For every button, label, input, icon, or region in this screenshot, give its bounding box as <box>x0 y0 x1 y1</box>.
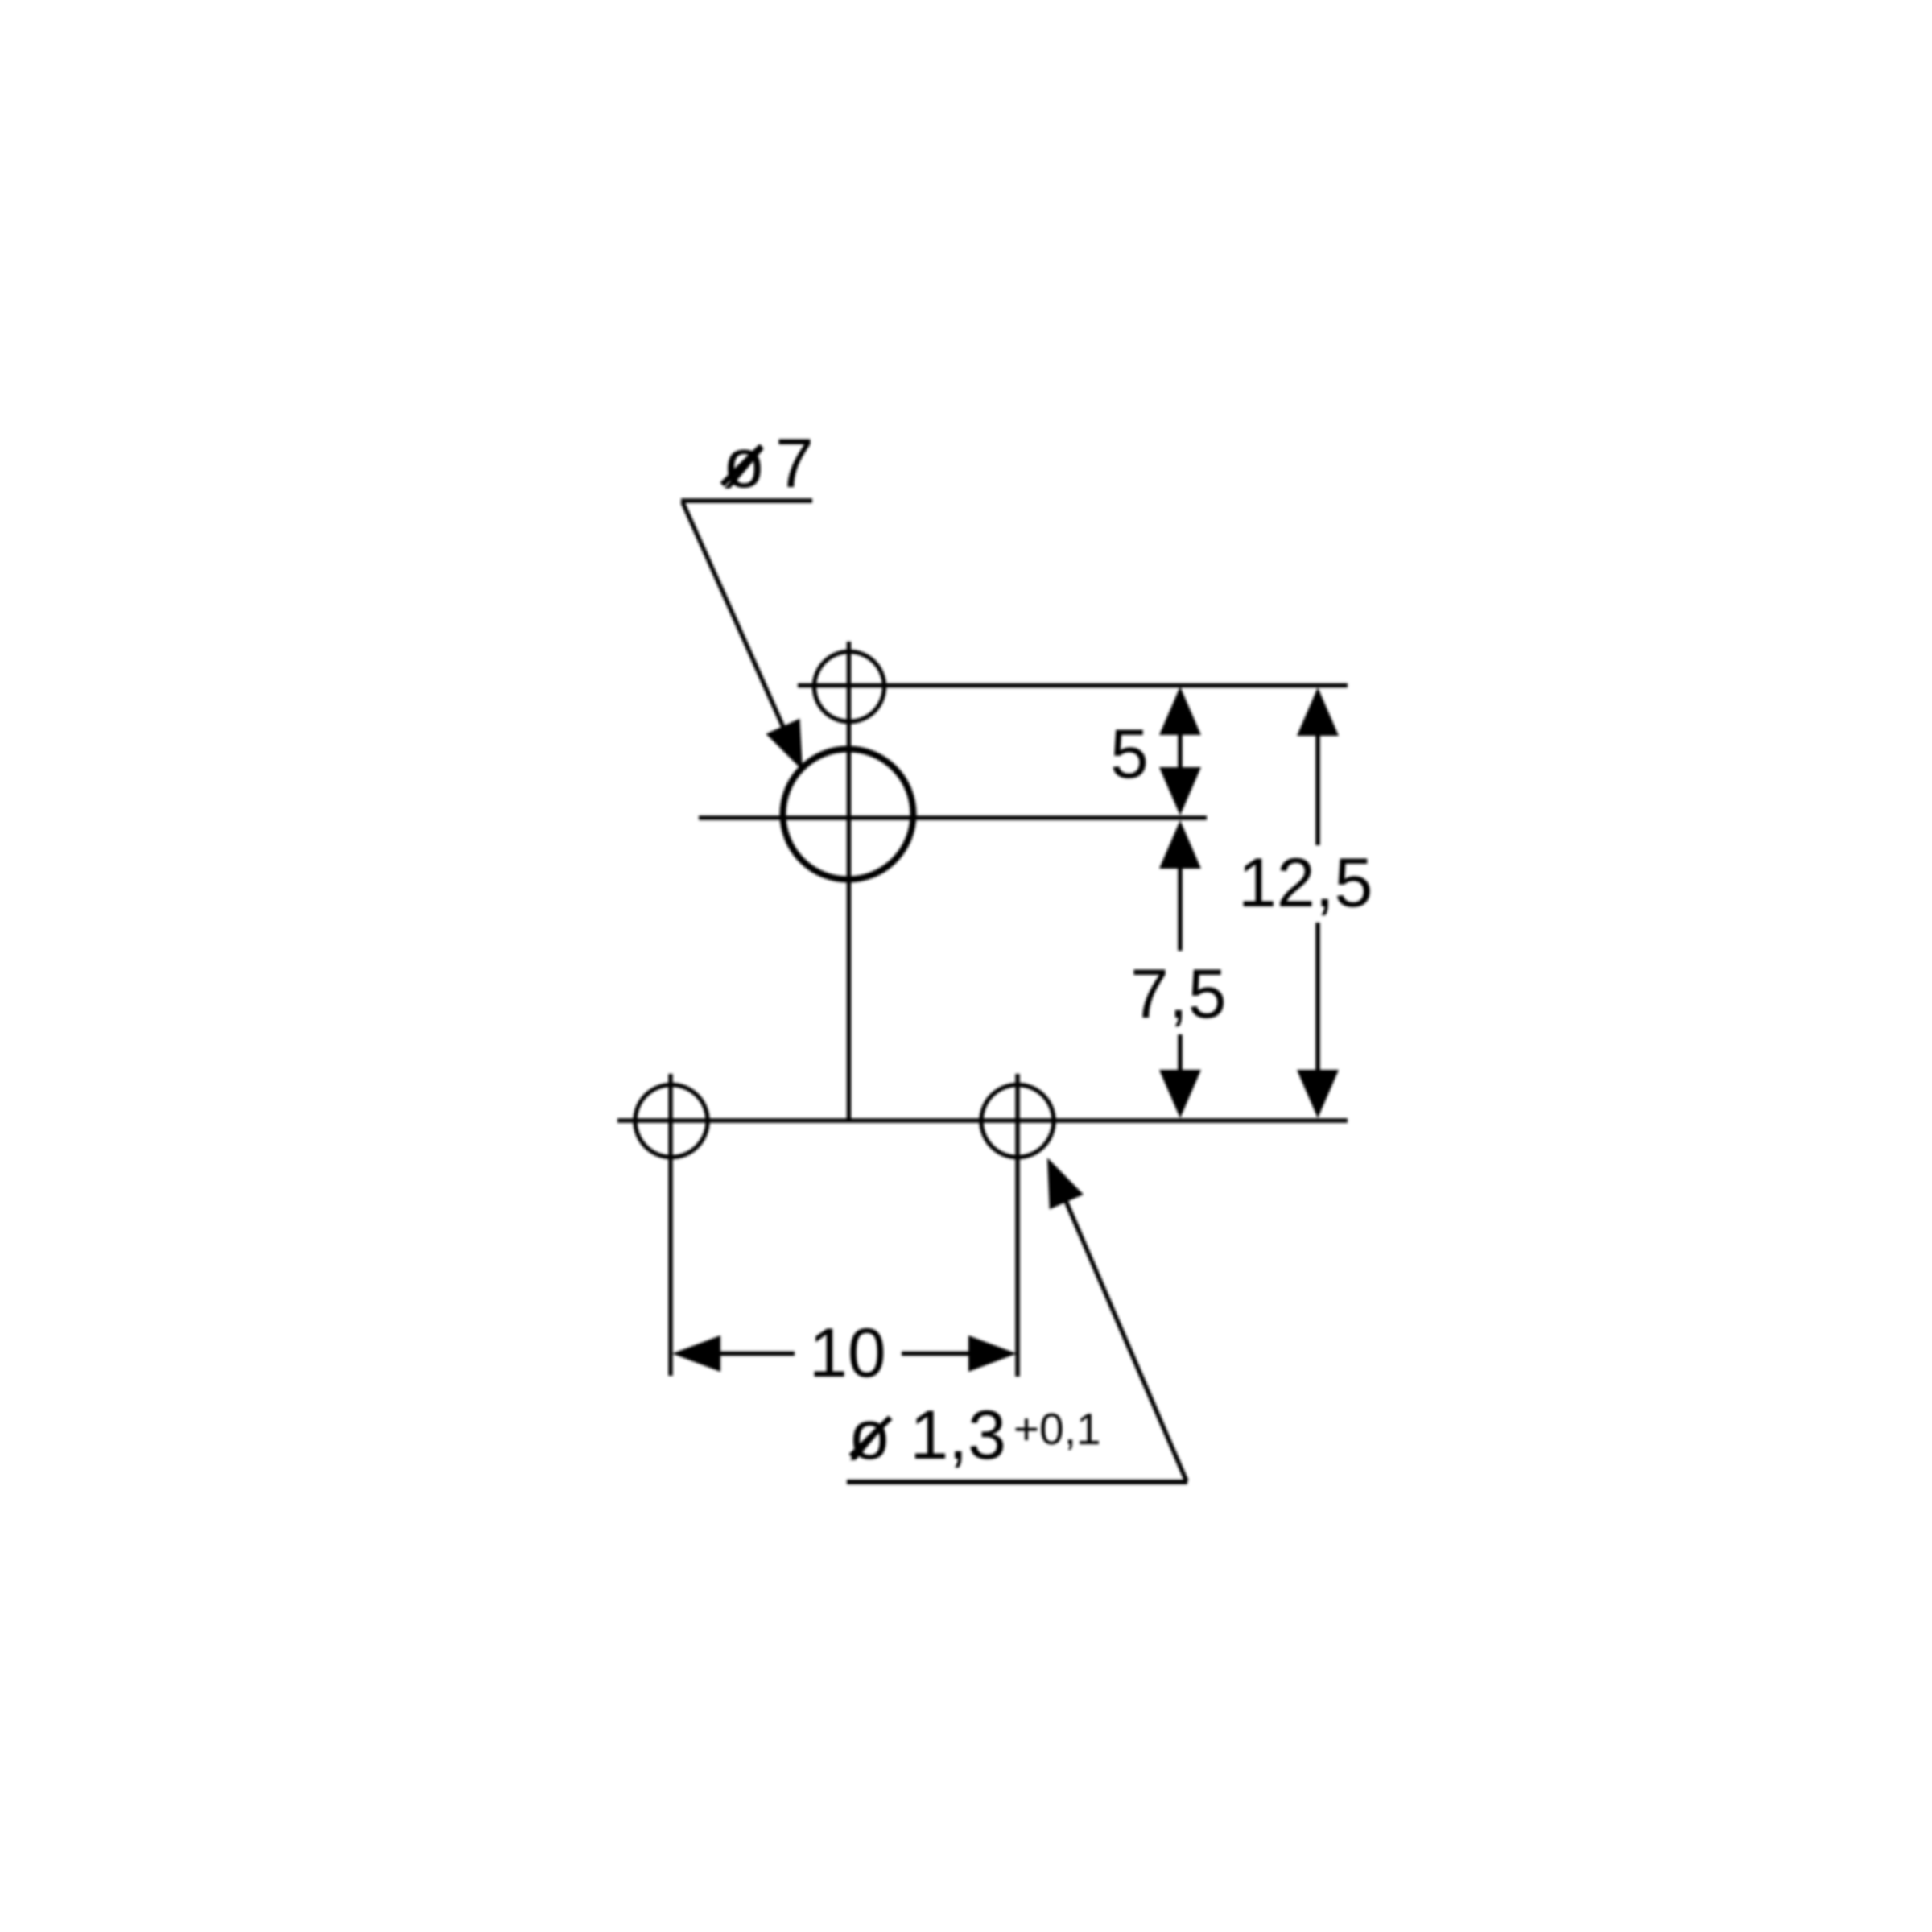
svg-text:12,5: 12,5 <box>1238 844 1373 922</box>
svg-text:7,5: 7,5 <box>1130 956 1227 1033</box>
svg-text:+0,1: +0,1 <box>1013 1404 1101 1454</box>
svg-text:ø 1,3: ø 1,3 <box>848 1397 1006 1474</box>
svg-text:10: 10 <box>809 1315 886 1392</box>
svg-text:ø: ø <box>723 425 766 502</box>
svg-text:5: 5 <box>1110 716 1149 793</box>
svg-text:7: 7 <box>775 425 814 502</box>
